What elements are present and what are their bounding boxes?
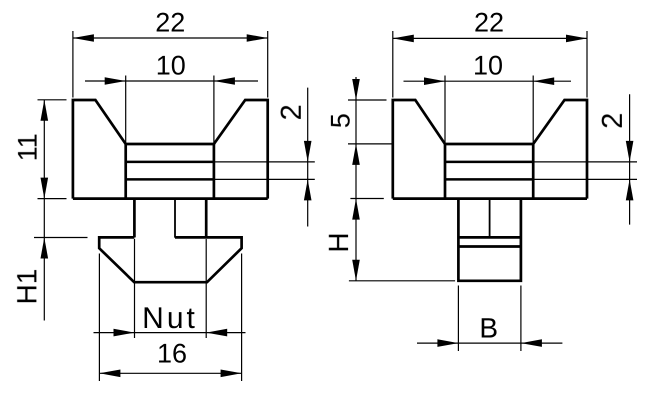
dimension 22 right: arrows — [393, 35, 587, 43]
dimension 2 left: arrows — [304, 141, 312, 201]
svg-text:16: 16 — [157, 339, 187, 369]
dimension 22 left: extension lines — [73, 31, 268, 98]
dimension 5: extension lines — [348, 100, 392, 144]
dimension 10 right: extension lines — [445, 76, 533, 145]
svg-text:H: H — [323, 232, 354, 252]
left view thread lines — [126, 162, 214, 180]
dimension 11: dimension line — [43, 100, 45, 199]
right view groove walls — [445, 144, 533, 199]
svg-text:11: 11 — [13, 133, 43, 161]
dimension 5: arrows — [352, 79, 360, 165]
svg-text:10: 10 — [156, 51, 186, 81]
left view neck middle line — [174, 199, 176, 238]
dimension Nut: extension lines — [135, 239, 207, 338]
dimension H: arrows — [352, 199, 360, 281]
dimension 22 left: dimension line — [73, 37, 268, 39]
dimension 2 left: extension lines — [214, 162, 315, 180]
dimension 16: dimension line — [99, 372, 241, 374]
right view thread lines — [445, 162, 533, 180]
svg-text:H1: H1 — [11, 269, 42, 305]
left view T-head outline — [99, 237, 241, 282]
left view neck walls — [134, 199, 206, 238]
svg-text:5: 5 — [326, 113, 356, 128]
dimension 2 right: dimension line — [629, 94, 631, 224]
dimension 11: extension lines — [38, 100, 67, 199]
svg-text:22: 22 — [474, 8, 504, 38]
dimension 2 right: arrows — [626, 141, 634, 201]
dimension 22 left: arrows — [73, 34, 268, 42]
right view body outline — [393, 100, 587, 199]
dimension 10 right: arrows — [424, 77, 554, 85]
svg-text:10: 10 — [473, 50, 503, 80]
dimension 10 left: dimension line — [85, 80, 258, 82]
svg-text:2: 2 — [276, 104, 308, 120]
dimension 10 right: dimension line — [404, 80, 572, 82]
dimension B: arrows — [437, 339, 542, 347]
left view groove walls — [126, 144, 214, 199]
dimension H: extension lines — [349, 199, 455, 281]
dimension 2 right: extension lines — [533, 162, 637, 180]
dimension H1: dimension line — [43, 199, 45, 321]
dimension H1: arrow — [41, 238, 49, 259]
svg-text:B: B — [479, 313, 498, 344]
dimension 22 right: extension lines — [393, 31, 587, 98]
svg-text:22: 22 — [155, 8, 185, 38]
svg-text:Nut: Nut — [142, 302, 198, 335]
dimension 16: arrows — [99, 370, 241, 378]
dimension 5 and H: shared dimension line — [355, 77, 357, 281]
dimension H1: extension line — [34, 237, 88, 239]
dimension 16: extension lines — [99, 254, 241, 382]
right view stem middle line — [489, 199, 491, 238]
dimension B: dimension line — [417, 342, 562, 344]
dimension Nut: arrows — [114, 329, 228, 337]
right view stem outline — [458, 199, 521, 281]
dimension B: extension lines — [458, 286, 521, 352]
dimension 2 left: dimension line — [307, 88, 309, 227]
right view stem cross lines — [458, 237, 521, 246]
left view body outline — [73, 100, 268, 199]
dimension 10 left: extension lines — [126, 76, 214, 145]
dimension 10 left: arrows — [105, 77, 235, 85]
dimension 22 right: dimension line — [393, 37, 587, 39]
dimension 11: arrows — [41, 100, 49, 199]
dimension Nut: dimension line — [94, 332, 246, 334]
svg-text:2: 2 — [597, 113, 629, 129]
